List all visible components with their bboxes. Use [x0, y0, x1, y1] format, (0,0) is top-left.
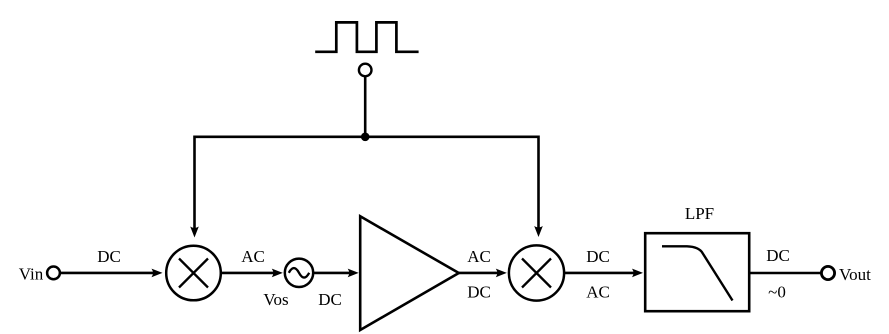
wire: right drop to demodulator M2	[537, 136, 540, 229]
svg-text:DC: DC	[467, 283, 491, 302]
wire: Vin to M1	[60, 272, 155, 275]
svg-text:DC: DC	[318, 290, 342, 309]
svg-text:LPF: LPF	[685, 204, 714, 223]
wire: amplifier to M2	[459, 272, 499, 275]
svg-text:DC: DC	[766, 246, 790, 265]
wire: Vos to amplifier	[314, 272, 352, 275]
clock square-wave symbol	[315, 22, 418, 51]
Vout output terminal	[821, 266, 834, 279]
wire: M1 to Vos source	[221, 272, 275, 275]
junction dot	[361, 133, 370, 142]
low-pass filter block	[645, 233, 749, 311]
Vin input terminal	[47, 267, 60, 280]
wire: clock distribution horizontal	[195, 136, 539, 139]
svg-text:AC: AC	[586, 283, 610, 302]
op-amp A1 (gain stage triangle)	[360, 216, 459, 330]
svg-text:Vout: Vout	[839, 265, 871, 284]
LPF response curve	[662, 246, 733, 300]
wire: M2 to LPF	[565, 272, 636, 275]
svg-text:AC: AC	[467, 247, 491, 266]
offset source Vos	[285, 259, 313, 287]
wire: LPF to Vout	[750, 272, 822, 275]
multiplier M2 (chopper demodulator)	[509, 245, 564, 300]
svg-text:~0: ~0	[768, 283, 786, 302]
svg-text:AC: AC	[241, 247, 265, 266]
svg-text:Vos: Vos	[263, 290, 288, 309]
wire: clock terminal to junction	[364, 77, 367, 137]
clock terminal circle	[359, 64, 372, 77]
multiplier M1 (chopper modulator)	[166, 246, 221, 301]
svg-text:Vin: Vin	[19, 265, 44, 284]
wire: left drop to modulator M1	[193, 136, 196, 230]
svg-text:DC: DC	[97, 247, 121, 266]
svg-text:DC: DC	[586, 247, 610, 266]
